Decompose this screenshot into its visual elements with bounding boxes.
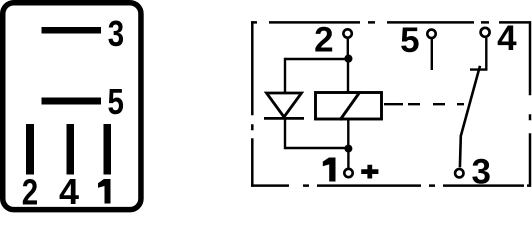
switch armature (movable contact): [460, 66, 480, 168]
pin 2 blade (vertical): [26, 124, 34, 175]
connector body outline: [3, 3, 141, 210]
plus polarity mark: [361, 165, 378, 179]
relay enclosure dash-dot border: bottom: [251, 184, 531, 187]
terminal 2 circle: [343, 29, 351, 37]
fixed contact tick: [470, 68, 488, 70]
pin 1 label: [98, 179, 111, 204]
relay enclosure dash-dot border: left: [251, 21, 254, 187]
relay coil K1 diagonal: [340, 93, 360, 121]
wire: junction A down to coil: [347, 59, 349, 93]
junction A (node): [344, 55, 352, 63]
wire: diode branch lower segment: [284, 117, 286, 149]
junction B (node): [344, 145, 352, 153]
diode D1 cathode bar: [264, 117, 304, 120]
pin 3 blade (horizontal): [42, 27, 102, 34]
svg-text:3: 3: [108, 13, 124, 53]
pin 1 blade (vertical): [104, 124, 112, 175]
pin 5 blade (horizontal): [42, 98, 102, 105]
terminal 1 circle: [344, 169, 352, 177]
terminal 1 label: [323, 158, 336, 182]
relay coil K1 body: [316, 93, 382, 120]
wire: terminal 2 down to junction A: [347, 39, 349, 59]
wire: junction B down to terminal 1: [347, 149, 349, 168]
wire: coil down to junction B: [347, 119, 349, 149]
terminal 4 circle: [481, 28, 490, 37]
svg-text:5: 5: [107, 81, 123, 121]
pin 4 blade (vertical): [67, 124, 75, 175]
wire: terminal 5 stub: [431, 39, 433, 70]
svg-text:5: 5: [400, 21, 419, 60]
diode D1 triangle: [267, 93, 302, 117]
svg-text:4: 4: [59, 171, 79, 212]
wire: bottom horizontal to junction B: [285, 147, 349, 149]
svg-text:3: 3: [471, 153, 490, 192]
svg-text:2: 2: [314, 20, 333, 59]
mechanical link (dashed) coil to armature: [384, 103, 468, 105]
svg-text:4: 4: [497, 19, 517, 58]
terminal 3 circle: [455, 169, 463, 177]
wire: diode branch upper segment: [284, 58, 286, 94]
relay enclosure dash-dot border: top: [251, 21, 531, 24]
wire: terminal 4 down to fixed contact: [485, 38, 487, 70]
relay enclosure dash-dot border: right: [529, 21, 532, 187]
svg-text:2: 2: [22, 172, 38, 212]
terminal 5 circle: [427, 30, 435, 38]
wire: junction A left to diode branch: [285, 58, 348, 60]
